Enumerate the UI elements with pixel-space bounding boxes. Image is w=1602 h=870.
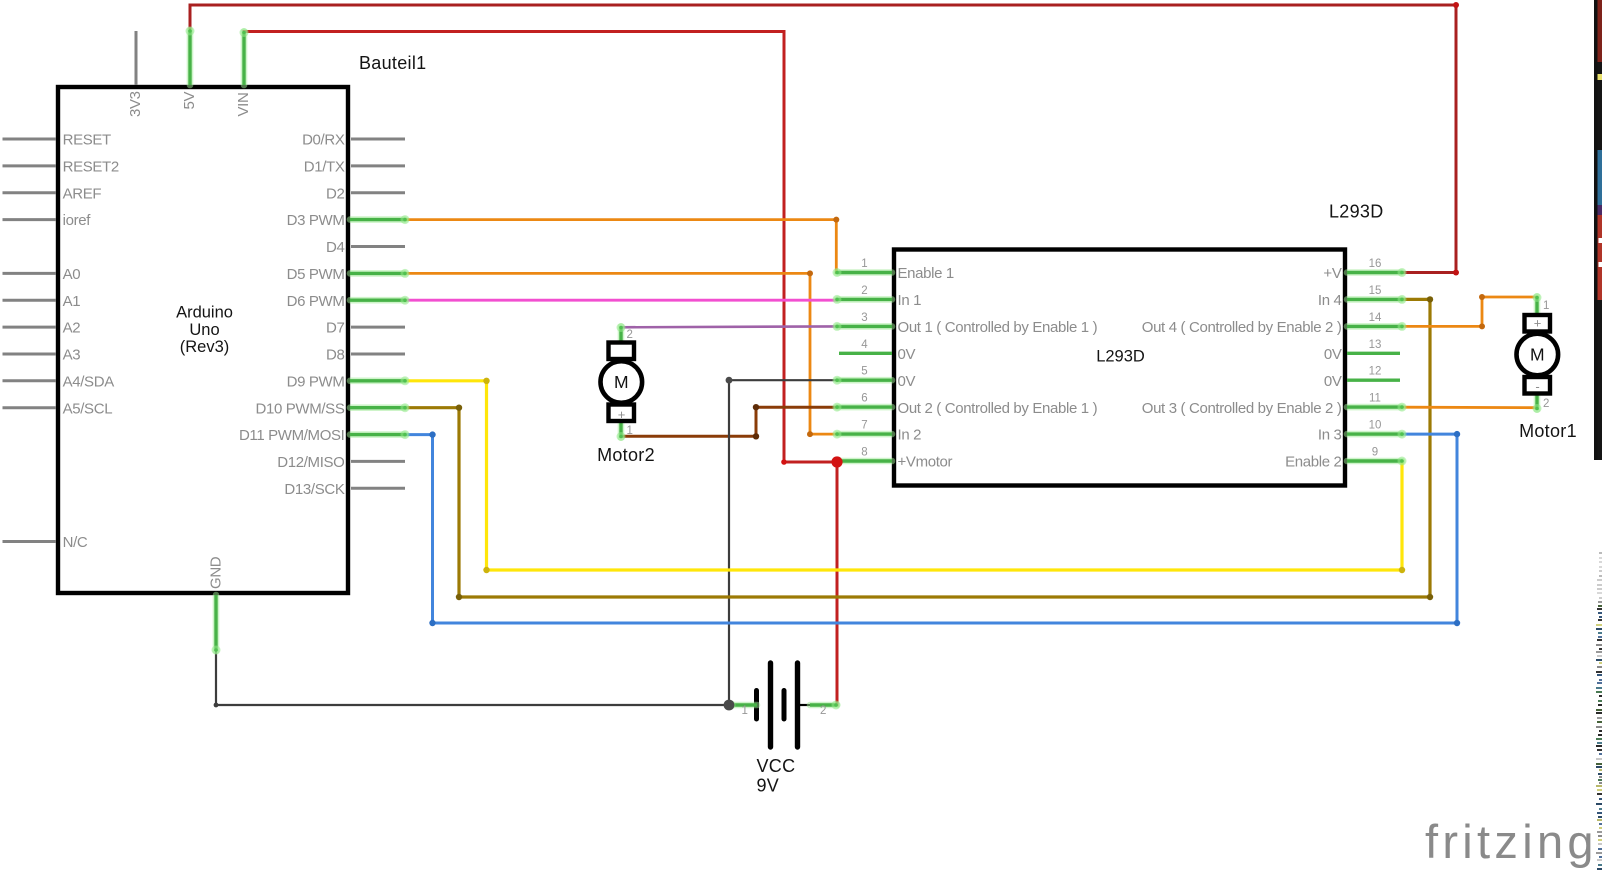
svg-text:9V: 9V [757,776,780,796]
Motor1 pin 2 stub [1533,394,1542,413]
svg-text:D1/TX: D1/TX [304,159,345,176]
pin ioref stub [3,218,57,221]
svg-text:0V: 0V [1324,373,1342,390]
battery pin 1 stub [727,701,758,710]
pin RESET2 stub [3,164,57,167]
node: brown bends [753,433,759,439]
pin A0 stub [3,272,57,275]
svg-text:7: 7 [861,420,867,432]
battery pin 2 stub [810,701,841,710]
pin 4 stub [839,352,892,355]
svg-text:D3 PWM: D3 PWM [287,212,345,229]
svg-text:D2: D2 [326,185,344,202]
svg-text:2: 2 [861,285,867,297]
svg-text:D0/RX: D0/RX [302,132,345,149]
svg-text:+Vmotor: +Vmotor [898,454,953,471]
battery plate short (neg, cell 1) [754,691,759,720]
op-amp/driver IC L293D body [894,250,1345,486]
pin A4/SDA stub [3,379,57,382]
pin 1 stub [833,268,893,277]
svg-text:+: + [1534,316,1542,331]
svg-text:16: 16 [1369,258,1382,270]
svg-text:In 4: In 4 [1318,292,1342,309]
pin A2 stub [3,326,57,329]
svg-text:A1: A1 [63,293,81,310]
pin D12 stub [351,460,405,463]
svg-text:0V: 0V [898,373,916,390]
svg-text:1: 1 [1543,300,1549,312]
pin 8 stub [833,457,893,466]
battery VCC 9V [727,663,841,747]
svg-text:GND: GND [208,556,225,589]
svg-text:Out 4 ( Controlled by Enable 2: Out 4 ( Controlled by Enable 2 ) [1142,319,1342,336]
Motor2 circle fill [601,361,643,403]
svg-text:RESET2: RESET2 [63,159,119,176]
svg-text:+V: +V [1323,265,1341,282]
svg-text:2: 2 [627,329,633,341]
pin D3 stub [350,215,410,224]
node: blue bends [429,431,435,437]
Motor2 bottom terminal box [609,405,635,422]
svg-text:D11 PWM/MOSI: D11 PWM/MOSI [239,427,345,444]
svg-text:A3: A3 [63,347,81,364]
wire 5V to L293D +V (red) [190,5,1456,273]
wire D5 PWM to In 2 (orange) [405,273,837,434]
svg-text:Arduino: Arduino [176,304,233,322]
svg-text:Uno: Uno [189,321,219,339]
node: orange bend D3 [833,217,839,223]
svg-text:fritzing: fritzing [1425,815,1598,868]
svg-text:Out 1 ( Controlled by Enable 1: Out 1 ( Controlled by Enable 1 ) [898,319,1098,336]
pin 9 stub [1347,457,1407,466]
pin D6 stub [350,296,410,305]
svg-text:1: 1 [627,425,633,437]
battery plate long (pos, cell 1) [768,663,773,747]
svg-text:D5 PWM: D5 PWM [287,266,345,283]
pin D1 stub [351,164,405,167]
svg-text:D12/MISO: D12/MISO [277,454,344,471]
svg-text:0V: 0V [898,346,916,363]
Arduino Uno U1 body [58,87,348,593]
svg-text:+: + [618,407,626,422]
wire D3 PWM to Enable 1 (orange) [405,220,836,273]
pin D8 stub [351,353,405,356]
pin 5V stub [186,27,195,86]
pin D5 stub [350,269,410,278]
pin 2 stub [833,295,893,304]
node: orange bends Motor1 [1479,323,1485,329]
pin 3V3 stub [135,31,138,85]
node: black bend at 729,380 [726,377,733,384]
pin D9 stub [350,376,410,385]
Arduino right unconnected pins [351,139,405,488]
pin A5/SCL stub [3,406,57,409]
Motor1 bottom terminal box [1525,377,1551,394]
svg-text:In 2: In 2 [898,427,922,444]
battery lead [800,704,814,706]
node: orange bends D5 [807,270,813,276]
node: red junction battery/+Vmotor [831,456,842,467]
svg-text:1: 1 [742,705,748,717]
svg-text:A2: A2 [63,320,81,337]
svg-text:1: 1 [861,258,867,270]
pin D2 stub [351,191,405,194]
Motor2 top terminal box [609,343,635,360]
wire Motor2 pin2 to Out 1 (purple) [621,325,837,328]
svg-text:13: 13 [1369,339,1382,351]
svg-text:L293D: L293D [1096,348,1145,366]
svg-text:(Rev3): (Rev3) [180,338,230,356]
svg-text:L293D: L293D [1329,202,1384,222]
svg-text:2: 2 [820,705,826,717]
wire battery pin1 to L293D 0V pin5 (black) [729,380,837,705]
pin 16 stub [1347,268,1407,277]
svg-text:VIN: VIN [235,93,252,117]
svg-text:D13/SCK: D13/SCK [284,481,344,498]
Motor2 circle [601,361,643,403]
Motor2 pin 1 stub [617,422,626,441]
pin D7 stub [351,326,405,329]
svg-text:Bauteil1: Bauteil1 [359,53,426,73]
pin A1 stub [3,299,57,302]
svg-text:12: 12 [1369,366,1382,378]
Motor1 circle fill [1517,334,1559,376]
wire D6 PWM to In 1 (pink) [405,299,837,302]
svg-text:M: M [1530,345,1545,365]
wire D11 PWM/MOSI to In 3 (blue) [405,434,1457,623]
svg-text:Enable 2: Enable 2 [1285,454,1341,471]
pin N/C stub [3,540,57,543]
svg-text:5V: 5V [181,92,198,110]
svg-text:Enable 1: Enable 1 [898,265,954,282]
pin D0 stub [351,138,405,141]
svg-text:A0: A0 [63,266,81,283]
svg-text:9: 9 [1372,447,1378,459]
svg-text:5: 5 [861,366,867,378]
pin 7 stub [833,430,893,439]
screen-edge artifact strip [1594,0,1602,870]
svg-text:14: 14 [1369,312,1382,324]
pin VIN stub [240,28,249,85]
svg-text:AREF: AREF [63,185,102,202]
svg-text:VCC: VCC [757,756,796,776]
pin 11 stub [1347,403,1407,412]
battery plate long (pos, cell 2) [795,663,800,747]
pin AREF stub [3,191,57,194]
svg-text:-: - [1535,379,1539,394]
svg-text:6: 6 [861,393,867,405]
svg-text:10: 10 [1369,420,1382,432]
wire Motor2 pin1 to Out 2 (brown) [621,407,837,436]
svg-text:8: 8 [861,447,867,459]
svg-text:D6 PWM: D6 PWM [287,293,345,310]
svg-text:4: 4 [861,339,868,351]
pin 3 stub [833,322,893,331]
svg-text:0V: 0V [1324,346,1342,363]
pin 13 stub [1347,352,1400,355]
svg-text:A5/SCL: A5/SCL [63,400,113,417]
node: red corner 5V top right [1453,2,1459,8]
svg-text:In 3: In 3 [1318,427,1342,444]
node: dark yellow bends [456,405,462,411]
Motor1 top terminal box [1525,315,1551,332]
pin A3 stub [3,353,57,356]
wire D9 PWM to Enable 2 (yellow) [405,381,1402,570]
svg-text:M: M [614,372,629,392]
pin GND stub [212,595,221,655]
pin D10 stub [350,403,410,412]
svg-text:Out 3 ( Controlled by Enable 2: Out 3 ( Controlled by Enable 2 ) [1142,400,1342,417]
svg-text:D4: D4 [326,239,344,256]
svg-text:2: 2 [1543,398,1549,410]
svg-text:D9 PWM: D9 PWM [287,373,345,390]
svg-text:Motor1: Motor1 [1519,421,1577,441]
svg-text:Motor2: Motor2 [597,445,655,465]
wire VIN to battery + and L293D +Vmotor (red) [244,32,837,706]
pin 15 stub [1347,295,1407,304]
node: black junction at battery pin1 [724,700,735,711]
svg-text:3: 3 [861,312,867,324]
wire Out 3 to Motor1 pin2 (orange) [1402,406,1537,409]
pin 14 stub [1347,322,1407,331]
Arduino left pins (unconnected gray stubs) [3,139,57,542]
pin 10 stub [1347,430,1407,439]
svg-text:D7: D7 [326,320,344,337]
Motor1 circle [1517,334,1559,376]
motor M2 (Motor2) [601,323,643,441]
pin 6 stub [833,403,893,412]
node: red bendpoint at 784,462 [781,459,787,465]
svg-text:In 1: In 1 [898,292,922,309]
pin D4 stub [351,245,405,248]
svg-text:D10 PWM/SS: D10 PWM/SS [255,400,344,417]
svg-text:11: 11 [1369,393,1381,405]
node: black bend GND corner [214,703,219,708]
node: yellow bends [483,378,489,384]
Motor1 pin 1 stub [1533,293,1542,316]
wire GND to battery pin1 (black) [216,651,729,705]
Motor2 pin 2 stub [617,323,626,344]
pin 12 stub [1347,379,1400,382]
svg-text:RESET: RESET [63,132,111,149]
svg-text:15: 15 [1369,285,1382,297]
motor M1 (Motor1) [1517,293,1559,413]
pin 5 stub [833,376,893,385]
svg-text:Out 2 ( Controlled by Enable 1: Out 2 ( Controlled by Enable 1 ) [898,400,1098,417]
pin RESET stub [3,138,57,141]
pin D11 stub [350,430,410,439]
svg-text:N/C: N/C [63,534,88,551]
battery plate short (neg, cell 2) [782,691,787,720]
svg-text:A4/SDA: A4/SDA [63,373,115,390]
wire D10 PWM/SS to In 4 (dark yellow) [405,299,1430,597]
pin D13 stub [351,487,405,490]
svg-text:D8: D8 [326,347,344,364]
svg-text:ioref: ioref [63,212,92,229]
svg-text:3V3: 3V3 [127,91,144,117]
wire Out 4 to Motor1 pin1 (orange) [1402,297,1537,326]
